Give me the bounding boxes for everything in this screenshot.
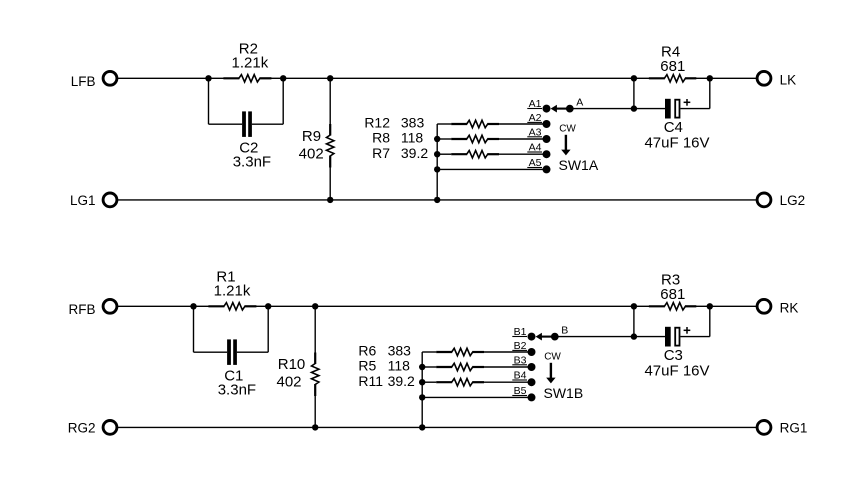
- node series-junction-top: [631, 303, 637, 309]
- svg-text:R10: R10: [278, 356, 306, 373]
- resistor R9: [299, 78, 334, 200]
- switch contact A5: [527, 157, 550, 173]
- wire: [268, 305, 634, 307]
- switch wiper A: [551, 96, 584, 112]
- wire: [710, 77, 756, 79]
- rotation arrow: [561, 135, 570, 156]
- wire bus: [436, 124, 438, 200]
- terminal RK: [757, 299, 798, 315]
- node bus: [434, 136, 440, 142]
- svg-text:R11: R11: [358, 373, 383, 389]
- node R9-bottom: [327, 197, 333, 203]
- wire: [283, 77, 634, 79]
- terminal RFB: [69, 299, 117, 317]
- svg-text:R7: R7: [372, 145, 390, 161]
- svg-text:383: 383: [388, 342, 412, 358]
- switch contact B3: [512, 355, 535, 372]
- wire ground: [118, 426, 756, 428]
- svg-text:CW: CW: [544, 352, 561, 363]
- resistor R10: [276, 306, 318, 427]
- resistor R4: [634, 43, 710, 82]
- node bus: [419, 379, 425, 385]
- switch contact B5: [512, 385, 535, 401]
- wire wiper: [570, 108, 634, 110]
- svg-text:RG1: RG1: [780, 421, 808, 436]
- switch contact B1: [512, 326, 535, 340]
- node series-junction-wiper: [631, 105, 637, 111]
- svg-text:R5: R5: [358, 358, 376, 374]
- node series-junction-wiper: [631, 333, 637, 339]
- switch contact B2: [512, 340, 535, 356]
- svg-text:47uF 16V: 47uF 16V: [644, 135, 709, 152]
- svg-text:C3: C3: [664, 347, 683, 364]
- switch contact A3: [527, 127, 550, 144]
- node series-junction-top: [631, 75, 637, 81]
- svg-text:C4: C4: [664, 119, 683, 136]
- label SW1A: [559, 157, 599, 173]
- node series-right: [707, 303, 713, 309]
- capacitor C4: [634, 78, 710, 151]
- terminal LG2: [757, 193, 805, 208]
- node LFB-R-left: [205, 75, 211, 81]
- node R9-top: [312, 303, 318, 309]
- node R9-bottom: [312, 424, 318, 430]
- label CW: [559, 124, 576, 135]
- wire: [118, 305, 194, 307]
- svg-text:LG1: LG1: [70, 193, 96, 208]
- terminal LK: [757, 71, 796, 87]
- wire: [633, 78, 635, 108]
- node bus: [419, 394, 425, 400]
- node R-right: [280, 75, 286, 81]
- node bus: [434, 151, 440, 157]
- svg-text:B: B: [561, 324, 568, 336]
- svg-text:SW1A: SW1A: [559, 157, 599, 173]
- resistor R6: [358, 342, 531, 358]
- label SW1B: [544, 385, 584, 401]
- terminal LG1: [70, 193, 117, 208]
- wire wiper: [555, 336, 634, 338]
- svg-text:R6: R6: [358, 342, 376, 358]
- svg-text:1.21k: 1.21k: [214, 282, 251, 299]
- svg-text:402: 402: [299, 145, 324, 162]
- resistor R5: [358, 358, 531, 374]
- svg-text:3.3nF: 3.3nF: [233, 153, 271, 170]
- terminal LFB: [71, 71, 117, 89]
- svg-text:RG2: RG2: [68, 421, 96, 436]
- switch contact A4: [527, 142, 550, 159]
- switch contact B4: [512, 370, 535, 387]
- resistor R8: [372, 130, 546, 146]
- svg-text:LFB: LFB: [71, 74, 96, 89]
- wire ground: [118, 199, 756, 201]
- svg-text:RK: RK: [780, 300, 799, 315]
- node bus: [419, 364, 425, 370]
- svg-text:RFB: RFB: [69, 302, 96, 317]
- svg-text:402: 402: [276, 373, 301, 390]
- node RFB-R-left: [190, 303, 196, 309]
- resistor R3: [634, 271, 710, 310]
- svg-text:SW1B: SW1B: [544, 385, 584, 401]
- node bus-ground: [419, 424, 425, 430]
- svg-text:39.2: 39.2: [401, 145, 428, 161]
- capacitor C3: [634, 306, 710, 379]
- svg-text:383: 383: [401, 114, 425, 130]
- svg-text:39.2: 39.2: [388, 373, 415, 389]
- rotation arrow: [546, 363, 555, 384]
- wire: [437, 168, 546, 170]
- capacitor C1: [194, 306, 269, 398]
- terminal RG2: [68, 421, 117, 436]
- switch contact A1: [527, 98, 550, 112]
- svg-text:1.21k: 1.21k: [232, 54, 269, 71]
- switch wiper B: [536, 324, 569, 340]
- resistor R7: [372, 145, 546, 161]
- svg-text:118: 118: [388, 358, 411, 374]
- wire: [710, 305, 756, 307]
- wire bus: [421, 352, 423, 427]
- resistor R11: [358, 373, 531, 389]
- svg-text:681: 681: [660, 58, 685, 75]
- terminal RG1: [757, 421, 807, 436]
- node R-right: [265, 303, 271, 309]
- resistor R1: [194, 268, 269, 310]
- node R9-top: [327, 75, 333, 81]
- svg-text:47uF 16V: 47uF 16V: [644, 363, 709, 380]
- node bus: [434, 166, 440, 172]
- svg-text:681: 681: [660, 286, 685, 303]
- svg-text:LK: LK: [780, 72, 797, 87]
- svg-text:3.3nF: 3.3nF: [218, 381, 256, 398]
- node bus-ground: [434, 197, 440, 203]
- svg-text:CW: CW: [559, 124, 576, 135]
- svg-text:LG2: LG2: [780, 193, 806, 208]
- switch contact A2: [527, 112, 550, 128]
- node series-right: [707, 75, 713, 81]
- wire: [633, 306, 635, 336]
- wire: [422, 396, 531, 398]
- svg-text:R9: R9: [302, 128, 321, 145]
- resistor R2: [209, 40, 284, 82]
- svg-text:118: 118: [401, 130, 424, 146]
- capacitor C2: [209, 78, 284, 170]
- svg-text:R8: R8: [372, 130, 390, 146]
- label CW: [544, 352, 561, 363]
- svg-text:R12: R12: [364, 114, 390, 130]
- resistor R12: [364, 114, 546, 130]
- wire: [118, 77, 209, 79]
- svg-text:A: A: [576, 96, 583, 108]
